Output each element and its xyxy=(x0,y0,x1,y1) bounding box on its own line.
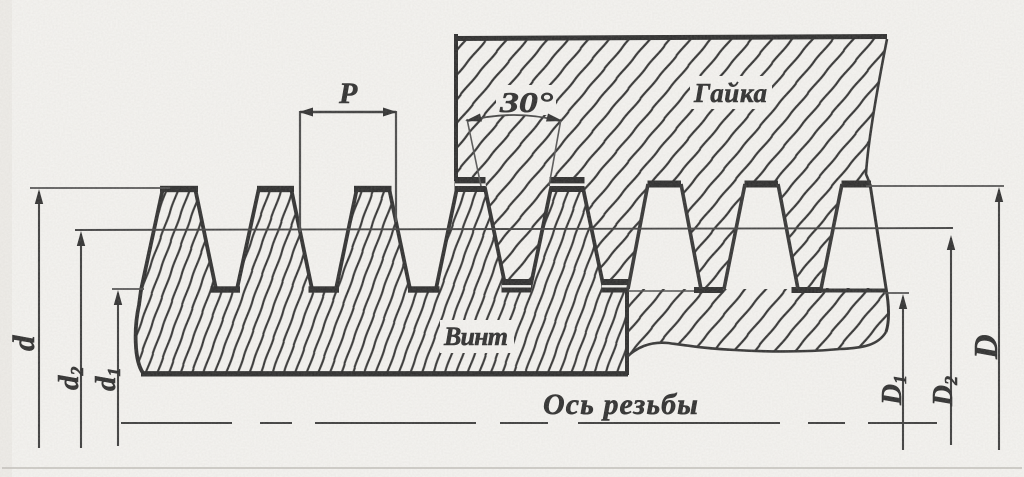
root clearance double bar V4 / nut tooth tip xyxy=(502,279,532,293)
30 degree angle: arc xyxy=(468,115,560,121)
pitch P: arrows xyxy=(299,108,313,117)
nut right edge xyxy=(866,39,887,184)
nut left edge xyxy=(454,34,458,181)
nut wavy bottom break line xyxy=(627,332,886,357)
valley floor bar V3 xyxy=(408,286,440,292)
centre axis dash-dot line xyxy=(121,422,937,424)
root clearance double bar V5 / nut tooth tip xyxy=(602,279,629,293)
nut top edge xyxy=(454,37,887,39)
dimension D1: vertical line xyxy=(902,297,904,450)
nut tooth tip bar N8 xyxy=(792,287,822,293)
screw (Винт) hatched body xyxy=(136,188,627,373)
groove G6 flanks xyxy=(628,184,701,289)
groove root bar G6 xyxy=(648,181,682,188)
dimension D1: arrow xyxy=(899,294,907,309)
crest bar tooth T1 xyxy=(160,186,198,192)
pitch P: extension lines xyxy=(299,111,301,232)
nut groove white cutout G6 xyxy=(628,184,701,289)
valley floor bar V2 xyxy=(309,286,340,292)
30 degree angle: flank extension lines xyxy=(467,119,481,186)
crest bar tooth T3 xyxy=(354,186,392,192)
nut groove white cutout G7 xyxy=(724,184,798,289)
pitch P: dimension line xyxy=(300,111,396,113)
nut (Гайка) hatched body xyxy=(456,36,889,357)
dimension D2: vertical line xyxy=(950,238,952,445)
left edge scan speckle strip xyxy=(0,0,12,477)
dimension d1: vertical line xyxy=(117,293,119,446)
screw right edge thick xyxy=(625,286,629,375)
dimension d: extension line xyxy=(30,187,170,189)
screw bottom edge thick xyxy=(141,372,628,377)
crest clearance double bar tooth T5 xyxy=(550,177,585,192)
30 degree angle: arrows xyxy=(465,114,482,122)
nut tooth tip bar N7 xyxy=(694,287,724,293)
valley floor bar V1 xyxy=(211,286,241,292)
dimension d2: arrow xyxy=(77,231,85,246)
dimension d2: vertical line xyxy=(80,234,82,448)
dimension d1: arrow xyxy=(114,290,122,305)
dimension D1: extension line xyxy=(884,292,909,294)
bottom scan border line xyxy=(2,467,1022,469)
dimension D: extension line xyxy=(866,185,1004,187)
30 degree angle: halo xyxy=(496,85,556,115)
groove root bar G7 xyxy=(745,181,779,188)
groove G7 flanks xyxy=(724,184,798,289)
dimension d: arrow xyxy=(35,189,43,204)
label Винт halo xyxy=(440,320,514,353)
dimension D: arrow xyxy=(995,187,1003,202)
dimension d1: extension line xyxy=(112,288,144,290)
nut bore line under groove G8 xyxy=(821,289,886,293)
groove G8 flanks xyxy=(821,184,842,289)
dimension d: vertical line xyxy=(38,192,40,448)
pitch line (d2/D2 level) xyxy=(75,228,953,230)
groove root bar G8 xyxy=(842,181,872,188)
crest bar tooth T2 xyxy=(257,186,294,192)
nut bore line D1 level xyxy=(628,290,696,292)
dimension D2: arrow xyxy=(947,235,955,250)
nut groove white cutout G8 xyxy=(821,184,886,288)
dimension D: vertical line xyxy=(998,190,1000,450)
label Гайка halo xyxy=(690,76,772,109)
crest clearance double bar tooth T4 xyxy=(455,177,486,192)
